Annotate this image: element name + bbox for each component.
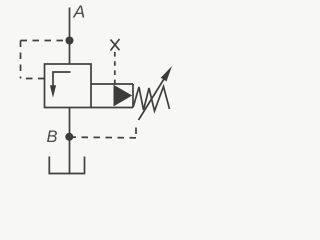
wire valve body to tank bbox=[69, 108, 71, 174]
adjustment arrow shaft bbox=[139, 73, 169, 121]
tank symbol bbox=[49, 157, 84, 174]
poppet triangle bbox=[114, 85, 133, 107]
internal flow arrow (L-shape) bbox=[53, 72, 71, 87]
spring chamber channel top bbox=[91, 83, 133, 85]
pilot dashed line into valve left side bbox=[21, 78, 45, 80]
junction dot A bbox=[66, 37, 74, 45]
wire port A to valve body bbox=[69, 8, 71, 65]
valve body square bbox=[45, 64, 92, 108]
dashed vent line from X to spring chamber bbox=[114, 52, 116, 84]
vent X symbol bbox=[111, 40, 120, 51]
drain dashed line from B: vertical riser bbox=[135, 128, 137, 135]
svg-text:A: A bbox=[73, 2, 86, 22]
spring chamber right edge bbox=[132, 84, 134, 108]
spring zigzag bbox=[133, 87, 169, 112]
svg-text:B: B bbox=[47, 128, 58, 146]
adjustment arrowhead bbox=[161, 66, 172, 81]
internal flow arrowhead bbox=[50, 85, 56, 98]
pilot dashed line from A: vertical left bbox=[20, 41, 22, 79]
pilot dashed line from A: horizontal bbox=[21, 40, 66, 42]
spring chamber channel bottom bbox=[91, 107, 133, 109]
drain dashed line from B: horizontal bbox=[73, 136, 136, 139]
junction dot B bbox=[65, 133, 73, 141]
